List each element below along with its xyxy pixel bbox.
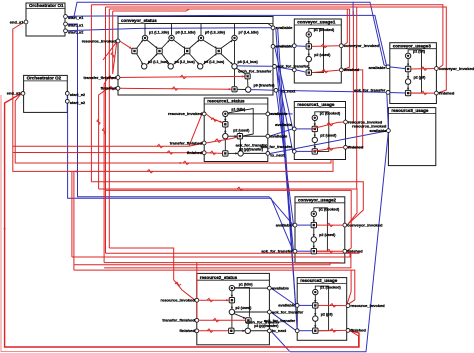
wire ru1 wire out1 [312,122,344,129]
svg-text:p5 (L3_idle): p5 (L3_idle) [205,31,226,35]
edge cs edge c1b [147,54,158,65]
wire zigzag ru1 zig1 [327,122,333,126]
svg-text:ack_for_transfer: ack_for_transfer [261,249,293,254]
port rs2 port available [268,286,272,290]
arrowhead cu3 arr2 [407,76,409,79]
wire red net ru1 inv loop [347,11,353,122]
port cs port available2 [271,45,275,49]
arrowhead cu1 arr2 [308,54,310,57]
wire red net cu1.fin right loop [343,70,363,147]
edge cs edge t3b [189,54,199,65]
port rs1 port available [266,112,270,116]
svg-text:Orchestrator O2: Orchestrator O2 [27,76,62,81]
edge rs1 edge p2-t2 [228,135,237,137]
svg-text:conveyor_usage2: conveyor_usage2 [298,197,337,202]
port cs port ack_for_transfer [273,65,277,69]
wire blue net diag ru2a [276,29,296,305]
svg-text:p1 (idle): p1 (idle) [239,282,254,286]
wire red net row152 [13,152,203,154]
arrowhead cs arr c1a [155,46,158,49]
wire cu1 wire in2 [296,70,306,72]
port cu2 port in2 [293,249,297,253]
wire blue net rs2.tonext bottom [271,331,290,352]
arrowhead cu2 arr1 [313,220,315,223]
port cu2 port conveyor_invoked [343,223,347,227]
edge rs2 edge t3-p3 [234,330,245,332]
wire cu3 wire out2 [410,92,435,94]
wire zigzag cu3 zig1 [421,67,427,71]
svg-text:p1 (booked): p1 (booked) [319,207,340,211]
svg-text:to_next: to_next [281,89,296,94]
place cs place p5 (L3_idle) [198,35,203,40]
place rs2 place p1 idle [229,285,234,290]
transition rs1 t3 [223,151,228,156]
transition ru1 t2 [312,149,317,154]
port cu1 port conveyor_invoked [339,44,343,48]
edge cu1 loop t2 to p1 [309,28,324,72]
svg-text:resource1_status: resource1_status [207,99,245,104]
edge rs1 edge t1-p2 [224,127,226,133]
edge rs2 edge p2-t3 [231,315,233,328]
svg-text:finished: finished [179,328,195,333]
arrowhead rs2 arr4 [243,330,246,332]
component box conveyor_usage2 [295,197,345,263]
transition cs t4 [216,48,221,53]
port ru1 port resource_invoked [344,120,348,124]
transition rs2 t2 [246,318,251,323]
wire zigzag rs2 zig in3 [207,329,213,333]
svg-text:p1 (booked): p1 (booked) [320,286,341,290]
wire blue net diag ru2b [278,29,298,330]
wire blue net start_e1 shallow [67,15,386,65]
wire cu1 wire in1 [296,45,306,48]
place cs place p3 (L2_idle) [169,35,174,40]
edge cs edge c3b [203,54,217,65]
component box resource3_usage [388,108,435,166]
transition cu2 t2 [311,249,316,254]
port o1 port start_s1 [64,22,68,26]
edge cs stub top 234.5 [234,24,236,36]
port cs port resource_invoked [116,39,120,43]
port o2 port end_s2 [21,92,25,96]
edge cs edge c1a [147,40,158,49]
wire zigzag rs2 zig in2 [213,318,219,322]
place rs1 place p3 transfer [238,151,243,156]
wire blue net rs1.avail right [269,113,292,115]
wire red net v112 short [113,11,117,74]
svg-text:transfer_finished: transfer_finished [170,140,203,145]
wire red net top4 jog merge [113,9,190,11]
place cs place p8 (L4_bus) [232,64,237,69]
svg-text:p7 (L4_idle): p7 (L4_idle) [239,31,260,35]
svg-text:available: available [270,111,288,116]
svg-text:resource_invoked: resource_invoked [351,303,386,308]
arrowhead rs2 arr in1 [226,299,229,301]
svg-text:ack_for_transfer: ack_for_transfer [354,88,386,93]
svg-text:p2 (used): p2 (used) [319,233,336,237]
arrowhead ru1 arr2 [314,135,316,138]
place cs place p6 (L3_bus) [198,64,203,69]
wire blue net start_s1 down loop [67,24,293,225]
port cs port finished [116,86,120,90]
port o2 port start_e2 [65,92,69,96]
svg-text:conveyor_invoked: conveyor_invoked [344,43,380,48]
wire blue net ack to cu1b [276,67,292,70]
wire zigzag rs1 zig in3 [210,151,216,155]
wire red net v105 [105,7,107,253]
arrowhead cu1 arr1 [308,41,310,44]
svg-text:end_s2: end_s2 [7,91,22,96]
port rs1 port resource_invoked [202,112,206,116]
transition cs t5 [245,74,250,79]
wire rs1 wire in3 [206,152,222,155]
wire zigzag rs1 zig in1 [211,118,217,122]
port ru2 port in1 [295,304,299,308]
svg-text:end_s1: end_s1 [10,19,25,24]
svg-text:p2 (p3): p2 (p3) [414,75,427,79]
wire blue net avail2 diag ru1a [275,47,293,129]
port cu1 port in available [292,44,296,48]
wire ru1 wire in1 [296,128,312,130]
arrowhead cs arr t2a [167,39,170,42]
transition cu3 t1 [405,66,410,71]
wire blue net ack diag cu2b [277,67,294,250]
port ru2 port resource_invoked [346,304,350,308]
wire zigzag cu1 zig1 [321,44,327,48]
place rs2 place p3 transfer [245,328,250,333]
place rs1 place p1 idle [223,111,228,116]
wire zigzag red zig 162 [183,161,189,165]
edge rs2 edge t2-p3 [247,323,249,328]
wire cs p9 to to_next port [251,89,274,92]
port rs2 port to_next [268,329,272,333]
edge rs1 edge p1-t1 [224,117,226,122]
wire red net top3 to cu1.invoked [109,9,347,46]
wire red net top1 to cu3.invoked [91,5,443,69]
wire blue net avail2 to cu1 [275,45,293,48]
wire red net end_s2 split a [15,93,331,163]
svg-text:finished: finished [348,145,364,150]
wire red net st row253 [106,252,360,253]
wire red net end_s2 split b [5,93,359,347]
edge cu1 edge t1-p2 [308,49,310,56]
port cu3 port ack_for_transfer [386,91,390,95]
edge cs edge t5-p9 [247,79,249,87]
arrowhead cu3 arr3 [407,88,409,91]
wire ru2 wire in2 [299,330,313,332]
edge cs edge t4b [221,54,233,65]
arrowhead cs arr t2b [167,62,170,65]
wire cu2 wire in2 [297,250,311,252]
port rs1 port to_next [266,152,270,156]
svg-text:p2 (used): p2 (used) [235,306,252,310]
wire zigzag cs zig tf [180,75,186,79]
edge cs edge t1b [137,54,144,65]
wire red net cs.tf hook [104,78,116,263]
svg-text:conveyor_invoked: conveyor_invoked [347,222,383,227]
svg-text:start_s2: start_s2 [70,100,86,105]
arrowhead cu3 arr1 [407,64,409,67]
svg-text:finished: finished [347,249,363,254]
edge ru2 loop t2 to p1 [315,286,328,331]
wire rs2 wire in3 [199,330,229,332]
place cs place p7 (L4_idle) [232,35,237,40]
svg-text:p2 (p3): p2 (p3) [321,312,334,316]
wire rs1 wire in2 [206,137,237,143]
svg-text:p3 (p)(transfer): p3 (p)(transfer) [239,147,263,151]
port ru2 port in2 [295,329,299,333]
svg-text:available: available [369,128,387,133]
edge cs edge t4a [221,40,233,49]
edge rs2 edge p2-t2 [234,314,246,319]
edge ru1 edge p2-t2 [314,143,316,149]
wire zigzag red zig v112 [111,52,114,58]
arrowhead rs1 arr1 [224,119,226,122]
svg-text:resource1_usage: resource1_usage [297,102,335,107]
wire zigzag cu2 zig1 [327,223,333,227]
wire zigzag ru1 zig2 [327,147,333,151]
wire blue net r3u long diag [290,131,388,351]
wire rs1 wire in1 [206,114,223,123]
wire rs1 wire out1 [228,113,266,115]
svg-text:transfer_finished: transfer_finished [84,75,117,80]
edge cu3 loop t2 to p1 [408,50,421,93]
svg-text:p9 (transfer): p9 (transfer) [254,84,276,88]
transition cs t2 [157,48,162,53]
place cu2 place p2 [311,237,316,242]
wire red net h189 [99,189,357,225]
wire zigzag red zig fin hook [109,86,115,90]
arrowhead ru1 arr3 [314,146,316,149]
wire red net row270 ru2inv [74,270,355,305]
edge cu3 edge p1-t1 [407,59,409,67]
wire zigzag cu3 zig2 [421,91,427,95]
wire cu2 wire out2 [317,250,343,252]
arrowhead cs arr t3b [197,62,200,65]
edge cs edge t1a [137,40,144,49]
svg-text:resource_invoked: resource_invoked [82,38,117,43]
wire cs available bus [145,24,273,36]
edge cs stub top 171.5 [171,24,173,36]
arrowhead red arr h171 [74,170,77,172]
wire cu1 wire out1 [312,45,340,48]
wire cs finished to t6 [120,87,232,90]
port rs1 port ack_for_transfer [266,134,270,138]
svg-text:finished: finished [351,328,367,333]
place rs1 place p2 used [223,134,228,139]
transition rs2 t3 [229,328,234,333]
wire cu3 wire out1 [411,68,435,71]
wire blue net ack diag ru1b [276,67,292,151]
wire blue net branch top [352,2,354,15]
port ru1 port in2 [292,150,296,154]
place rs2 place p2 used [229,309,234,314]
place ru1 place p1 [312,115,317,120]
svg-text:conveyor_invoked1: conveyor_invoked1 [439,66,474,71]
wire cu2 wire out1 [317,224,343,226]
wire zigzag red zig fin1 [167,151,173,155]
wire red net v109 [108,9,110,248]
edge cs edge p8-t6 [234,69,236,86]
arrowhead ru2 arr2 [314,313,316,316]
edge cs edge p7-p8 [234,41,236,63]
wire ru1 wire in2 [296,150,312,152]
port r3u port resource_invoked [387,129,391,133]
wire cs resource_invoked to t1 [120,41,132,49]
edge cu2 edge t1-p2 [313,228,315,237]
wire zigzag rs1 zig in2 [215,139,221,143]
svg-text:available: available [278,303,296,308]
place ru2 place p1 [313,289,318,294]
arrowhead cs arrow into t6 [229,88,232,90]
port o1 port end_s1 [24,20,28,24]
svg-text:finished: finished [439,90,455,95]
edge rs2 edge p1-t1 [231,291,233,298]
svg-text:Orchestrator O1: Orchestrator O1 [29,3,64,8]
edge cu2 edge p2-t2 [313,242,315,248]
arrowhead cs arr t1b [141,62,144,65]
wire blue net rs1.ack right [269,129,292,136]
component box Orchestrator O1 [26,3,65,36]
wire zigzag red zig st248 [175,282,181,286]
wire ru1 wire out2 [312,147,344,151]
wire ru2 wire in1 [299,304,313,306]
wire red net cs.fin hook [99,88,117,189]
wire cu2 wire in1 [297,224,311,226]
arrowhead rs1 arr in1 [220,120,223,123]
port cu2 port finished [343,249,347,253]
port rs2 port resource_invoked [195,298,199,302]
edge rs1 edge t2-p3 [239,139,241,151]
wire zigzag red zig 171 [147,170,153,174]
edge rs1 edge p2-t3 [224,139,226,151]
arrowhead cs arr t3a [197,39,200,42]
component box conveyor_usage3 [390,43,437,104]
svg-text:p8 (L4_bus): p8 (L4_bus) [238,60,259,64]
wire red net v91 [90,5,92,182]
component box resource2_status [197,273,270,344]
arrowhead rs1 arr3 [235,135,238,137]
wire rs1 wire out3 [244,152,267,154]
svg-text:available: available [270,134,288,139]
wire zigzag ru2 zig1 [330,304,336,308]
edge cs edge p8-t5 [237,68,246,74]
wire blue net rs2.ack right [271,312,296,330]
wire zigzag rs2 zig in1 [207,298,213,302]
wire ru2 wire out1 [318,304,346,306]
svg-text:to_next: to_next [270,153,285,158]
port ru2 port finished [346,329,350,333]
port cs port transfer_finished [116,76,120,80]
wire blue net o2 e2 down loop [68,93,294,251]
arrowhead cs arr t4b [230,62,233,65]
svg-text:transfer_finished: transfer_finished [162,318,195,323]
svg-text:start_s1: start_s1 [68,23,84,28]
place cs place p9 (transfer) [246,87,251,92]
component box Orchestrator O2 [24,75,68,112]
arrowhead cs arrow into t5 [242,75,245,77]
wire red net top2 to cu3.finished [106,7,447,93]
svg-text:p1 (idle): p1 (idle) [231,107,246,111]
place cs place p1 (L1_idle) [142,35,147,40]
transition cs t3 [185,48,190,53]
edge cs edge t2b [162,54,170,65]
wire red net end_s1 loop [13,22,333,171]
edge ru1 loop t2 to p1 [315,112,329,152]
transition rs1 t1 [223,122,228,127]
wire cs transfer_finished to t5 [120,76,245,77]
svg-text:resource2_status: resource2_status [200,275,238,280]
svg-text:conveyor_usage1: conveyor_usage1 [297,20,336,25]
arrowhead rs1 arr2 [224,131,226,134]
svg-text:p2 (used): p2 (used) [314,53,331,57]
wire ru2 wire out2 [318,329,346,331]
component box resource2_usage [297,278,347,341]
arrowhead cs arr c3b [215,53,218,56]
svg-text:p1 (booked): p1 (booked) [314,28,335,32]
svg-text:p2 (used): p2 (used) [233,128,250,132]
wire zigzag red zig v98 [97,119,100,125]
wire blue net tonext diag cu2a [276,91,293,225]
wire red net h181 [91,182,363,225]
arrowhead rs2 arr2 [231,307,233,310]
edge cu3 edge p2-t2 [407,84,409,90]
wire rs2 wire out1 [235,287,268,289]
edge cs edge t6-p9 [238,88,246,90]
wire red net st row264 [74,263,330,265]
transition ru1 t1 [312,126,317,131]
wire red net row267 cu2fin [104,252,351,268]
svg-text:p2 (used): p2 (used) [320,134,337,138]
arrowhead ru1 arr1 [314,124,316,127]
svg-text:finished: finished [101,86,117,91]
svg-text:available: available [272,285,290,290]
port cu2 port in1 [293,223,297,227]
wire red net row146 [13,143,203,146]
svg-text:resource3_usage: resource3_usage [391,108,429,113]
wire red net st row262 branch rs2 [196,263,198,321]
arrowhead red arr row162 [178,162,181,164]
edge ru2 edge p1-t1 [314,295,316,303]
port cs port available1 [271,26,275,30]
transition ru2 t2 [313,328,318,333]
arrowhead ru2 arr1 [314,300,316,303]
arrowhead rs1 arr4 [235,152,238,154]
wire zigzag red zig v104 [102,128,105,134]
svg-text:available: available [276,25,294,30]
edge cs edge t3a [189,40,199,49]
wire red net row146 branch to rs1.ri [189,115,202,146]
edge cu3 edge t1-p2 [407,72,409,79]
edge cs edge c2b [174,54,186,65]
port ru1 port finished [344,145,348,149]
transition cu3 t2 [405,90,410,95]
arrowhead cu2 arr3 [313,246,315,249]
svg-text:to_next: to_next [272,328,287,333]
wire blue net start_e1 top bus [67,2,387,66]
arrowhead cs arr t4a [230,39,233,42]
svg-text:finished: finished [344,67,360,72]
arrowhead cu1 arr3 [308,67,310,70]
port rs2 port transfer_finished [195,318,199,322]
transition cs t6 [232,87,237,92]
edge rs2 edge t1-p2 [231,303,233,309]
svg-text:finished: finished [187,150,203,155]
edge rs1 edge t3-p3 [228,152,238,154]
edge cu2 loop t2 to p1 [314,208,328,251]
port cu1 port in ack [292,68,296,72]
wire zigzag red zig 189 [237,187,243,191]
